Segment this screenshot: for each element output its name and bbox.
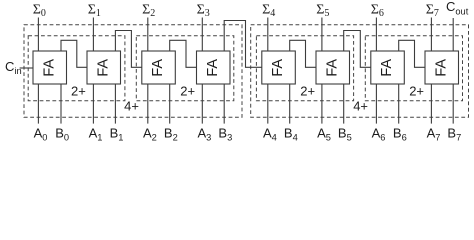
- carry wire C4: FA3 cout to FA4 cin: [224, 21, 262, 68]
- svg-text:B5: B5: [338, 126, 352, 143]
- input label A3: [198, 126, 212, 143]
- input label A4: [263, 126, 277, 143]
- svg-text:A2: A2: [143, 126, 157, 143]
- sum output line S7: [430, 18, 432, 52]
- svg-text:Σ6: Σ6: [371, 2, 384, 18]
- carry wire C6: FA5 cout to FA6 cin: [344, 31, 371, 68]
- sum output line S2: [147, 18, 149, 52]
- input label B5: [338, 126, 352, 143]
- full adder FA7: [425, 51, 459, 84]
- svg-text:A4: A4: [263, 126, 277, 143]
- sum output line S3: [201, 18, 203, 52]
- full adder FA0: [33, 51, 67, 84]
- full adder FA5: [316, 51, 350, 84]
- 2-bit group box (FA0-FA1), "2+" level: [28, 36, 125, 101]
- operand input line B2: [169, 84, 171, 124]
- svg-text:B3: B3: [218, 126, 232, 143]
- svg-text:A5: A5: [317, 126, 331, 143]
- carry-in line Cin: [20, 67, 33, 69]
- svg-text:FA: FA: [270, 59, 286, 77]
- svg-text:4+: 4+: [124, 98, 139, 113]
- operand input line A5: [321, 84, 323, 124]
- 4-bit group box (FA0-FA3), "4+" level: [24, 25, 242, 117]
- full adder FA2: [142, 51, 176, 84]
- operand input line B0: [60, 84, 62, 124]
- operand input line A6: [375, 84, 377, 124]
- sum label Sigma_5: [316, 2, 329, 18]
- full adder FA1: [87, 51, 121, 84]
- operand input line A0: [37, 84, 39, 124]
- svg-text:2+: 2+: [71, 83, 86, 98]
- input label B3: [218, 126, 232, 143]
- input label B1: [110, 126, 124, 143]
- svg-text:B0: B0: [55, 126, 69, 143]
- svg-text:FA: FA: [379, 59, 395, 77]
- svg-text:B6: B6: [393, 126, 407, 143]
- operand input line B5: [343, 84, 345, 124]
- svg-text:Cin: Cin: [5, 59, 22, 76]
- input label A6: [372, 126, 386, 143]
- svg-text:Σ0: Σ0: [33, 2, 46, 18]
- sum label Sigma_1: [88, 2, 101, 18]
- sum label Sigma_3: [197, 2, 210, 18]
- svg-text:A0: A0: [34, 126, 48, 143]
- sum label Sigma_2: [142, 2, 155, 18]
- sum label Sigma_6: [371, 2, 384, 18]
- input label B6: [393, 126, 407, 143]
- sum output line S6: [375, 18, 377, 52]
- operand input line B1: [114, 84, 116, 124]
- 2-bit group box (FA2-FA3), "2+" level: [136, 36, 234, 101]
- svg-text:Σ7: Σ7: [426, 2, 439, 18]
- sum output line S0: [37, 18, 39, 52]
- svg-text:B7: B7: [447, 126, 461, 143]
- operand input line B3: [223, 84, 225, 124]
- svg-text:B2: B2: [164, 126, 178, 143]
- svg-text:Σ5: Σ5: [316, 2, 329, 18]
- operand input line B7: [452, 84, 454, 124]
- adder-size label 2+: [180, 83, 195, 98]
- svg-text:Σ3: Σ3: [197, 2, 210, 18]
- svg-text:FA: FA: [150, 59, 166, 77]
- input label A5: [317, 126, 331, 143]
- carry wire C7: FA6 cout to FA7 cin: [399, 40, 425, 67]
- carry wire C3: FA2 cout to FA3 cin: [170, 40, 197, 67]
- input label A0: [34, 126, 48, 143]
- operand input line A1: [92, 84, 94, 124]
- sum label Sigma_4: [262, 2, 275, 18]
- svg-text:A1: A1: [89, 126, 103, 143]
- 2-bit group box (FA4-FA5), "2+" level: [256, 36, 353, 101]
- svg-text:FA: FA: [324, 59, 340, 77]
- label Cout: [446, 0, 469, 16]
- svg-text:Σ1: Σ1: [88, 2, 101, 18]
- input label B0: [55, 126, 69, 143]
- 4-bit group box (FA4-FA7), "4+" level: [251, 25, 469, 117]
- carry wire C2: FA1 cout to FA2 cin: [115, 31, 141, 68]
- carry wire C5: FA4 cout to FA5 cin: [290, 40, 316, 67]
- svg-text:Σ4: Σ4: [262, 2, 275, 18]
- svg-text:A3: A3: [198, 126, 212, 143]
- operand input line A7: [430, 84, 432, 124]
- input label A7: [427, 126, 441, 143]
- input label A2: [143, 126, 157, 143]
- sum output line S5: [321, 18, 323, 52]
- svg-text:B4: B4: [284, 126, 298, 143]
- svg-text:FA: FA: [41, 59, 57, 77]
- operand input line A4: [267, 84, 269, 124]
- 2-bit group box (FA6-FA7), "2+" level: [365, 36, 462, 101]
- adder-size label 2+: [300, 83, 315, 98]
- sum output line S4: [267, 18, 269, 52]
- sum output line S1: [92, 18, 94, 52]
- operand input line B6: [398, 84, 400, 124]
- operand input line A3: [201, 84, 203, 124]
- input label B7: [447, 126, 461, 143]
- carry wire C1: FA0 cout to FA1 cin: [61, 40, 87, 67]
- svg-text:Cout: Cout: [446, 0, 469, 16]
- svg-text:4+: 4+: [353, 98, 368, 113]
- svg-text:A6: A6: [372, 126, 386, 143]
- operand input line A2: [147, 84, 149, 124]
- carry-out line Cout from FA7: [452, 18, 454, 51]
- svg-text:Σ2: Σ2: [142, 2, 155, 18]
- svg-text:FA: FA: [205, 59, 221, 77]
- adder-size label 2+: [409, 83, 424, 98]
- adder-size label 4+: [124, 98, 139, 113]
- svg-text:2+: 2+: [300, 83, 315, 98]
- svg-text:FA: FA: [433, 59, 449, 77]
- adder-size label 2+: [71, 83, 86, 98]
- sum label Sigma_7: [426, 2, 439, 18]
- input label B4: [284, 126, 298, 143]
- label Cin: [5, 59, 22, 76]
- svg-text:2+: 2+: [180, 83, 195, 98]
- full adder FA4: [262, 51, 296, 84]
- input label A1: [89, 126, 103, 143]
- full adder FA6: [371, 51, 405, 84]
- svg-text:B1: B1: [110, 126, 124, 143]
- input label B2: [164, 126, 178, 143]
- svg-text:A7: A7: [427, 126, 441, 143]
- operand input line B4: [289, 84, 291, 124]
- svg-text:FA: FA: [95, 59, 111, 77]
- sum label Sigma_0: [33, 2, 46, 18]
- full adder FA3: [197, 51, 231, 84]
- svg-text:2+: 2+: [409, 83, 424, 98]
- adder-size label 4+: [353, 98, 368, 113]
